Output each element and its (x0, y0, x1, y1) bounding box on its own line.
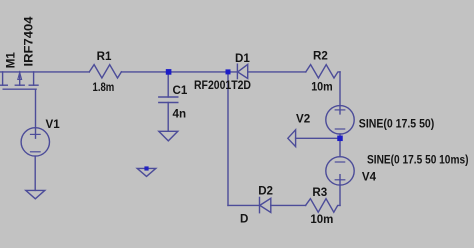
transistor M1 source channel tick (29, 84, 38, 86)
wire top rail from left edge to R1 (0, 71, 89, 73)
svg-text:SINE(0 17.5 50): SINE(0 17.5 50) (359, 118, 435, 131)
svg-text:10m: 10m (311, 81, 333, 94)
svg-text:V4: V4 (362, 171, 377, 184)
V1 minus sign (31, 151, 41, 153)
svg-text:SINE(0 17.5 50 10ms): SINE(0 17.5 50 10ms) (367, 154, 469, 167)
transistor M1 gate bar (3, 88, 36, 90)
transistor M1 bulk channel tick (15, 84, 24, 86)
net port arrow left of V2 node (288, 130, 296, 147)
M1 bulk arrow (18, 72, 22, 79)
junction node at D1 cathode (226, 69, 231, 74)
svg-text:4n: 4n (173, 108, 187, 121)
svg-text:R3: R3 (312, 186, 327, 199)
junction dot on floating ground (144, 166, 148, 170)
wire M1 gate down into V1 plus lead (35, 89, 37, 138)
capacitor C1 bottom lead (167, 103, 169, 132)
svg-text:D1: D1 (235, 52, 250, 65)
capacitor C1 top lead (167, 72, 169, 97)
svg-text:V2: V2 (296, 113, 310, 126)
diode D1 cathode bar (236, 64, 238, 78)
wire R3 to D2 (271, 204, 306, 206)
svg-text:V1: V1 (46, 118, 61, 131)
wire V2 minus through node to V4 (339, 134, 341, 157)
svg-text:D2: D2 (258, 184, 273, 197)
wire V4 plus lead down to bottom rail (339, 175, 341, 206)
wire port arrow to node under V2 (296, 137, 340, 139)
resistor R1 (89, 65, 121, 78)
diode D1 triangle (238, 64, 248, 78)
wire V1 minus to ground (34, 156, 36, 190)
diode D2 triangle (260, 198, 271, 212)
floating ground flag (137, 168, 156, 176)
resistor R2 (306, 65, 340, 78)
capacitor C1 bottom plate (159, 102, 178, 104)
junction node between V2 and V4 (337, 136, 343, 142)
svg-text:M1: M1 (5, 52, 18, 69)
wire D1 to R2 (248, 71, 306, 73)
transistor M1 source stub (33, 72, 35, 85)
transistor M1 bulk stub (19, 72, 21, 85)
transistor M1 drain channel tick (0, 84, 7, 86)
svg-text:1.8m: 1.8m (93, 81, 115, 94)
wire node N001 down to bottom rail (227, 72, 229, 206)
svg-text:C1: C1 (173, 84, 188, 97)
V4 minus sign (335, 161, 344, 163)
ground under C1 (159, 131, 178, 141)
svg-text:D: D (240, 213, 248, 226)
V2 minus sign (335, 128, 344, 130)
voltage source V1 circle (21, 128, 49, 156)
svg-text:RF2001T2D: RF2001T2D (194, 79, 251, 92)
capacitor C1 top plate (159, 96, 178, 98)
diode D2 cathode bar (259, 197, 261, 212)
transistor M1 (IRF7404 pmos) drain stub (2, 72, 4, 85)
voltage source V2 circle (326, 106, 354, 134)
junction node at C1 top (166, 69, 172, 75)
svg-text:10m: 10m (310, 213, 333, 226)
V4 plus sign crossbar (335, 179, 345, 181)
svg-text:R2: R2 (313, 50, 328, 63)
svg-text:R1: R1 (97, 50, 112, 63)
wire R2 corner down into V2 plus lead (339, 72, 341, 114)
svg-text:IRF7404: IRF7404 (22, 16, 35, 67)
ground under V1 (26, 190, 45, 198)
voltage source V4 circle (326, 157, 354, 185)
V1 plus sign crossbar (31, 133, 41, 135)
resistor R3 (306, 199, 340, 213)
wire R1 to D1 through node N001 (121, 71, 237, 73)
wire D2 to corner (228, 204, 260, 206)
V2 plus sign crossbar (335, 109, 345, 111)
